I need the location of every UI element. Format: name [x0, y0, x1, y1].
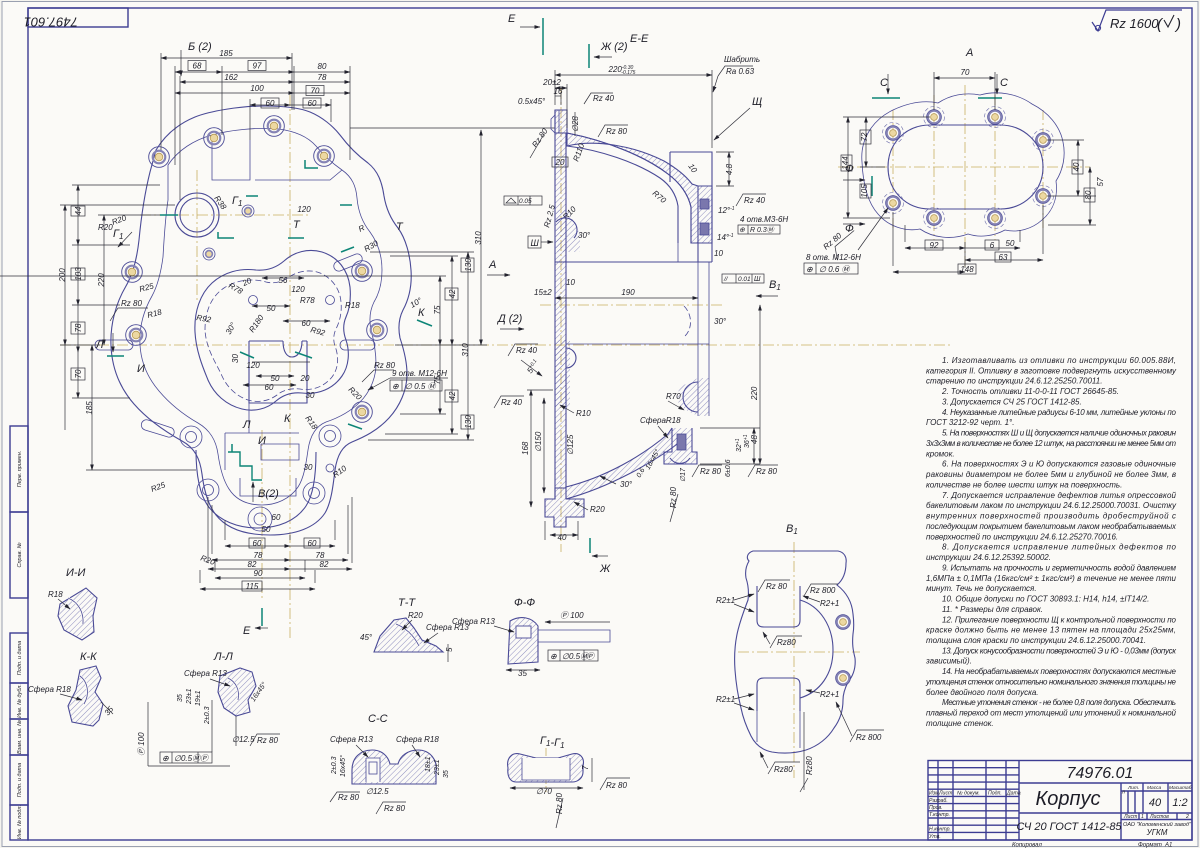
svg-text:раковины диаметром не более 5м: раковины диаметром не более 5мм и глубин…	[925, 470, 1176, 479]
right wall boss R70	[683, 382, 698, 412]
svg-text:Rz80: Rz80	[777, 638, 796, 647]
svg-text:82: 82	[320, 560, 329, 569]
svg-text:плавный переход от мест утолще: плавный переход от мест утолщений или ут…	[926, 709, 1177, 718]
svg-text:4. Неуказанные литейные радиус: 4. Неуказанные литейные радиусы 6-10 мм,…	[942, 408, 1177, 417]
centerline horizontal main	[60, 344, 950, 346]
svg-text:Листов: Листов	[1149, 814, 1169, 820]
sump U-notch	[283, 341, 302, 357]
svg-text:68: 68	[193, 62, 202, 71]
svg-text:поверхностей по инструкции 24.: поверхностей по инструкции 24.6.12.25270…	[926, 532, 1118, 541]
svg-text:105: 105	[860, 184, 869, 198]
svg-text:82: 82	[248, 560, 257, 569]
svg-text:Шабрить: Шабрить	[724, 55, 760, 64]
svg-text:Rz80: Rz80	[805, 756, 814, 775]
B1 arrow marker right of E-E	[756, 279, 781, 296]
svg-text:35: 35	[443, 770, 450, 778]
svg-text:78: 78	[316, 551, 325, 560]
sump step lines	[225, 403, 299, 470]
svg-text:310: 310	[461, 343, 470, 357]
right wall below flange	[698, 262, 709, 416]
svg-text:1,6МПа ± 0,1МПа (16кгс/см² ± 1: 1,6МПа ± 0,1МПа (16кгс/см² ± 1кгс/см²) в…	[926, 574, 1177, 583]
svg-text:Л-Л: Л-Л	[213, 651, 233, 663]
svg-text:R18: R18	[48, 590, 63, 599]
svg-text:толщине стенок.: толщине стенок.	[926, 719, 994, 728]
leader 8 отв М12-6Н	[804, 208, 888, 274]
svg-text:R18: R18	[345, 301, 360, 310]
bore big circle outer	[175, 193, 219, 237]
svg-text:8. Допускается исправление: 8. Допускается исправление литейных дефе…	[942, 543, 1177, 552]
left margin column boxes	[10, 426, 28, 840]
svg-text:Ⓟ 100: Ⓟ 100	[137, 732, 146, 756]
svg-text:∅28: ∅28	[571, 116, 580, 132]
svg-text:R78: R78	[300, 296, 315, 305]
bottom dim chains	[200, 497, 352, 589]
svg-text:30: 30	[306, 391, 315, 400]
30 deg dashed arc	[684, 306, 691, 336]
svg-text:УГКМ: УГКМ	[1146, 828, 1168, 837]
labels	[716, 580, 884, 792]
inner flange contour	[140, 128, 382, 505]
svg-text:60: 60	[308, 539, 317, 548]
centerline vertical bore	[196, 170, 198, 300]
inner horizontal line	[566, 343, 709, 345]
svg-text:15±2: 15±2	[534, 288, 552, 297]
svg-text:4 отв.М3-6Н: 4 отв.М3-6Н	[740, 215, 788, 224]
svg-text:220: 220	[750, 386, 759, 401]
svg-text:Е: Е	[508, 13, 516, 25]
svg-text:120: 120	[297, 205, 311, 214]
svg-text:Сфера R13: Сфера R13	[452, 617, 495, 626]
svg-text:42: 42	[448, 391, 457, 400]
svg-text:В(2): В(2)	[258, 488, 279, 500]
svg-text:Ш: Ш	[531, 238, 540, 248]
svg-text:Rz 80: Rz 80	[766, 582, 787, 591]
svg-text:70: 70	[74, 369, 83, 378]
left slot 2	[141, 420, 174, 437]
svg-text:Б (2): Б (2)	[188, 41, 212, 53]
svg-text:К: К	[418, 307, 425, 319]
svg-text:∅125: ∅125	[566, 434, 575, 455]
svg-text:70: 70	[961, 68, 970, 77]
svg-text:44: 44	[74, 206, 83, 215]
svg-text:7. Допускается исправление д: 7. Допускается исправление дефектов лить…	[942, 491, 1177, 500]
svg-text:Дата: Дата	[1006, 791, 1021, 797]
svg-text:⊕: ⊕	[392, 382, 399, 391]
svg-text:Сфера R18: Сфера R18	[28, 685, 71, 694]
R20 leader top-left	[98, 223, 132, 247]
svg-text:78: 78	[74, 323, 83, 332]
svg-text:3. Допускается СЧ 25 ГОСТ 1412: 3. Допускается СЧ 25 ГОСТ 1412-85.	[942, 398, 1082, 407]
svg-text:R20: R20	[408, 611, 423, 620]
svg-text:Rz 800: Rz 800	[856, 733, 882, 742]
svg-text:Т.контр.: Т.контр.	[929, 812, 950, 818]
svg-text:5: 5	[445, 647, 454, 652]
svg-text:40: 40	[558, 533, 567, 542]
notch to bottom lines	[757, 711, 800, 748]
right slot	[340, 340, 375, 350]
svg-text:185: 185	[85, 401, 94, 415]
svg-text:7497.601: 7497.601	[24, 15, 78, 30]
svg-text:120: 120	[291, 285, 305, 294]
svg-text:Rz 80: Rz 80	[374, 361, 395, 370]
outer contour	[111, 106, 411, 535]
svg-text:220: 220	[97, 273, 106, 288]
svg-text:200: 200	[58, 268, 67, 283]
section К-К	[28, 651, 116, 726]
svg-text:Rz 800: Rz 800	[810, 586, 836, 595]
svg-text:13. Допуск конусообразности по: 13. Допуск конусообразности поверхностей…	[942, 646, 1177, 655]
svg-text:7: 7	[581, 765, 590, 770]
svg-text:11. * Размеры для справок.: 11. * Размеры для справок.	[942, 605, 1043, 614]
lower notch	[757, 678, 800, 711]
svg-text:Rz 80: Rz 80	[384, 804, 405, 813]
svg-text:количестве не более шести штук: количестве не более шести штук на поверх…	[926, 480, 1122, 489]
joint face line	[555, 261, 712, 263]
right top flange block	[670, 152, 712, 262]
svg-text:60: 60	[265, 383, 274, 392]
inner bowl right	[800, 600, 833, 698]
svg-text:6: 6	[990, 241, 995, 250]
svg-text:40: 40	[1149, 797, 1162, 809]
svg-text:∅17: ∅17	[680, 467, 687, 482]
svg-text:К: К	[284, 413, 291, 425]
svg-text:R2+1: R2+1	[820, 690, 839, 699]
svg-text:Rz 80: Rz 80	[756, 467, 777, 476]
svg-text:Сфера R13: Сфера R13	[184, 669, 227, 678]
svg-text:Пров.: Пров.	[929, 805, 943, 811]
svg-text:Корпус: Корпус	[1035, 788, 1100, 810]
svg-text:63: 63	[999, 253, 1008, 262]
central cavity outline	[195, 250, 350, 410]
svg-text:Утв.: Утв.	[929, 834, 941, 840]
section Л-Л	[137, 651, 280, 766]
svg-text:0.05: 0.05	[519, 198, 532, 205]
svg-text:115: 115	[246, 582, 259, 591]
svg-text:И: И	[258, 435, 266, 447]
svg-text:Rz 80: Rz 80	[606, 781, 627, 790]
svg-text:60: 60	[302, 319, 311, 328]
svg-text:Ж (2): Ж (2)	[600, 41, 628, 53]
top window lines	[212, 135, 250, 180]
svg-text:И: И	[137, 363, 145, 375]
svg-text:148: 148	[960, 265, 974, 274]
svg-text:Лист: Лист	[938, 791, 953, 797]
title block	[928, 761, 1192, 848]
right flange curl hatched	[678, 243, 712, 262]
top-left designation box	[24, 8, 128, 30]
svg-text:Rz 40: Rz 40	[744, 196, 765, 205]
svg-text:4.8: 4.8	[725, 163, 734, 175]
section И-И	[48, 567, 97, 640]
svg-text:толщина слоя краски по инструк: толщина слоя краски по инструкции 24.6.1…	[926, 636, 1146, 645]
svg-text:6. На поверхностях Э и Ю допус: 6. На поверхностях Э и Ю допускаются газ…	[942, 460, 1177, 469]
svg-text:Rz 80: Rz 80	[700, 467, 721, 476]
svg-text:30°: 30°	[578, 231, 591, 240]
svg-text:⊕: ⊕	[162, 754, 169, 763]
svg-text:краске должно быть не менее 13: краске должно быть не менее 13 пятен на …	[926, 626, 1176, 635]
svg-text:R2±1: R2±1	[716, 596, 735, 605]
svg-text:Масса: Масса	[1147, 785, 1162, 791]
svg-text:R 0.3Ⓜ: R 0.3Ⓜ	[750, 226, 775, 234]
Rz 80 flag top-left of view	[110, 299, 148, 321]
left wall boss	[566, 348, 576, 368]
inner dims main view	[224, 205, 315, 534]
svg-text:0.5х45°: 0.5х45°	[518, 97, 546, 106]
left slot	[95, 340, 133, 350]
svg-text:Rz 80: Rz 80	[606, 127, 627, 136]
svg-text:Разраб.: Разраб.	[929, 798, 948, 804]
section Ф-Ф	[452, 597, 610, 678]
top flange of left wall	[555, 110, 567, 133]
svg-text:⊕: ⊕	[550, 652, 557, 661]
svg-text:утолщения стенок относительно: утолщения стенок относительно номинально…	[925, 678, 1177, 687]
svg-text:16х45°: 16х45°	[339, 755, 347, 777]
top horizontal dimension chains (185/68/97/162/100/70/60)	[161, 53, 350, 200]
inner notch top	[757, 586, 800, 627]
svg-text:23±1: 23±1	[186, 688, 193, 705]
svg-text:45°: 45°	[360, 633, 373, 642]
Л marker left	[107, 333, 124, 356]
svg-text:R20: R20	[98, 223, 113, 232]
svg-text:Rz 40: Rz 40	[501, 398, 522, 407]
cavity inner dashed	[205, 271, 341, 401]
svg-text:Перв. примен.: Перв. примен.	[17, 451, 23, 488]
svg-text:последующим покрытием бакелито: последующим покрытием бакелитовым лаком …	[926, 522, 1177, 531]
section letters on main view	[95, 195, 425, 447]
svg-text:СфераR18: СфераR18	[640, 416, 681, 425]
svg-text:Д (2): Д (2)	[496, 313, 523, 325]
centerline horizontal bore	[140, 214, 310, 216]
svg-text:Щ: Щ	[752, 96, 762, 108]
section Г1-Г1	[508, 735, 630, 828]
svg-text:60: 60	[266, 99, 275, 108]
svg-text:50: 50	[267, 304, 276, 313]
svg-text:Rz 80: Rz 80	[669, 487, 678, 508]
Б(2) section marker top	[181, 41, 212, 76]
svg-text:Rz80: Rz80	[774, 765, 793, 774]
svg-text:60: 60	[272, 513, 281, 522]
svg-text:130: 130	[464, 415, 473, 429]
section С-С	[330, 713, 450, 814]
svg-text:9 отв. М12-6Н: 9 отв. М12-6Н	[392, 369, 447, 378]
svg-text:Ⓟ 100: Ⓟ 100	[560, 611, 584, 620]
svg-text:10. Общие допуски по ГОСТ 3089: 10. Общие допуски по ГОСТ 30893.1: Н14, …	[942, 595, 1149, 604]
svg-text:168: 168	[521, 441, 530, 455]
bolt inserts right wall	[700, 199, 709, 209]
svg-text:Формат: Формат	[1138, 843, 1162, 848]
svg-text:Rz 80: Rz 80	[257, 736, 278, 745]
C section marks	[872, 74, 1008, 98]
svg-text:80: 80	[318, 62, 327, 71]
svg-text:R10: R10	[576, 409, 591, 418]
svg-text:Ж: Ж	[599, 563, 611, 575]
E-E dimensions bottom	[494, 305, 778, 542]
svg-text:Е-Е: Е-Е	[630, 33, 649, 45]
svg-text:1: 1	[1141, 814, 1144, 820]
svg-text:Подп. и дата: Подп. и дата	[17, 641, 23, 675]
svg-text:Rz 80: Rz 80	[121, 299, 142, 308]
svg-text:А1: А1	[1164, 843, 1172, 848]
svg-text:23±1: 23±1	[434, 759, 441, 776]
A view dims	[843, 72, 1096, 272]
svg-text:инструкции 24.6.12.25392.50002: инструкции 24.6.12.25392.50002.	[926, 553, 1051, 562]
svg-text:Масштаб: Масштаб	[1169, 785, 1192, 791]
svg-text:1. Изготавливать из отли: 1. Изготавливать из отливки по инструкци…	[942, 356, 1176, 365]
svg-text:R70: R70	[666, 392, 681, 401]
svg-text:162: 162	[224, 73, 238, 82]
inner stadium	[888, 125, 1043, 209]
left wall hatched	[555, 133, 566, 488]
svg-text:бакелитовым лаком по инструкци: бакелитовым лаком по инструкции 24.6.12.…	[926, 501, 1177, 510]
svg-text:5. На поверхностях Ш и Щ допус: 5. На поверхностях Ш и Щ допускается нал…	[942, 429, 1177, 438]
svg-text:Копировал: Копировал	[1012, 843, 1042, 848]
svg-text:Rz 80: Rz 80	[338, 793, 359, 802]
svg-text:20±2: 20±2	[542, 78, 561, 87]
svg-text:∅ 0.5 Ⓜ: ∅ 0.5 Ⓜ	[405, 382, 438, 391]
svg-text:Справ. №: Справ. №	[17, 542, 23, 567]
lower sump window	[261, 444, 299, 460]
lower sump outline	[249, 341, 307, 403]
svg-text:3х3х3мм в количестве не более: 3х3х3мм в количестве не более 12 штук, н…	[926, 439, 1176, 448]
svg-text:1:2: 1:2	[1172, 797, 1187, 809]
svg-text:зависимый).: зависимый).	[925, 657, 972, 666]
svg-text:категория II. Отливку в загото: категория II. Отливку в заготовке подвер…	[926, 366, 1177, 375]
svg-text:130: 130	[464, 258, 473, 272]
svg-text:Взам. инв. №: Взам. инв. №	[17, 720, 23, 754]
svg-text:С-С: С-С	[368, 713, 388, 725]
svg-text:Сфера R13: Сфера R13	[330, 735, 373, 744]
svg-text:72: 72	[860, 132, 869, 141]
svg-text:Лит.: Лит.	[1127, 785, 1139, 791]
Ф marks	[843, 163, 872, 235]
E section marker top	[508, 13, 543, 55]
svg-text:2±0.3: 2±0.3	[331, 756, 338, 775]
svg-text:30°: 30°	[714, 317, 727, 326]
svg-text:С: С	[1000, 77, 1008, 89]
svg-text:14. На необрабатываемых поверх: 14. На необрабатываемых поверхностях доп…	[942, 667, 1177, 676]
E-E centerlines	[540, 304, 722, 306]
svg-text:R2±1: R2±1	[716, 695, 735, 704]
svg-text:∅12.5: ∅12.5	[366, 787, 389, 796]
svg-text:R2+1: R2+1	[820, 599, 839, 608]
svg-text:∅150: ∅150	[534, 431, 543, 452]
svg-text:Ш: Ш	[754, 276, 761, 283]
Д(2) marker	[496, 313, 524, 329]
svg-text:92: 92	[930, 241, 939, 250]
svg-text:№ докум.: № докум.	[957, 791, 980, 797]
svg-text:50: 50	[262, 525, 271, 534]
svg-text:Ф-Ф: Ф-Ф	[514, 597, 535, 609]
svg-text:): )	[1174, 16, 1181, 33]
centerline vertical bottom	[261, 430, 263, 600]
svg-text:30°: 30°	[620, 480, 633, 489]
svg-text:8 отв. М12-6Н: 8 отв. М12-6Н	[806, 253, 861, 262]
svg-text:более двойного поля допуска.: более двойного поля допуска.	[926, 688, 1039, 697]
svg-text:30: 30	[231, 354, 240, 363]
svg-text:190: 190	[621, 288, 635, 297]
leader radius labels main view	[111, 194, 381, 567]
svg-text:6±0.6: 6±0.6	[725, 459, 732, 477]
svg-text:Н.контр.: Н.контр.	[929, 827, 951, 833]
teal section marks on main view	[160, 160, 432, 480]
bolt holes of main view	[122, 116, 388, 531]
svg-text:Местные утонения стенок - не б: Местные утонения стенок - не более 0,8 п…	[942, 698, 1176, 707]
svg-text:310: 310	[474, 231, 483, 245]
10deg note right	[409, 295, 425, 309]
svg-text:50: 50	[271, 374, 280, 383]
svg-text:кромок.: кромок.	[926, 449, 955, 458]
svg-text:Лист: Лист	[1123, 814, 1138, 820]
svg-text:56: 56	[279, 276, 288, 285]
svg-text:2±0.3: 2±0.3	[204, 706, 211, 725]
svg-text:R20: R20	[590, 505, 605, 514]
svg-text:старению по инструкции 24.6.12: старению по инструкции 24.6.12.25250.700…	[926, 377, 1102, 386]
svg-text:40: 40	[1072, 162, 1081, 171]
svg-text:∅0.5Ⓜ: ∅0.5Ⓜ	[174, 754, 202, 763]
centerline vertical main	[289, 95, 291, 640]
svg-text:Rz 80: Rz 80	[555, 793, 564, 814]
svg-text:Инв. № дубл.: Инв. № дубл.	[17, 684, 23, 718]
svg-text:Rz 40: Rz 40	[516, 346, 537, 355]
svg-text:И-И: И-И	[66, 567, 86, 579]
svg-text:Т-Т: Т-Т	[398, 597, 416, 609]
bolt holes	[883, 107, 1054, 229]
svg-text:185: 185	[219, 49, 233, 58]
svg-text:50: 50	[1006, 239, 1015, 248]
svg-text:103: 103	[74, 267, 83, 281]
svg-text:20: 20	[300, 374, 310, 383]
svg-text:78: 78	[254, 551, 263, 560]
svg-text:Л: Л	[242, 419, 251, 431]
svg-text:С: С	[880, 77, 888, 89]
svg-text:А: А	[965, 47, 973, 59]
svg-text:2. Точность отливки 11-0-0-11: 2. Точность отливки 11-0-0-11 ГОСТ 26645…	[941, 387, 1119, 396]
svg-text:10: 10	[714, 249, 723, 258]
svg-text:Ra 0.63: Ra 0.63	[726, 67, 755, 76]
small holes	[836, 615, 851, 630]
svg-text:л: л	[1121, 790, 1125, 796]
svg-text:18±1: 18±1	[425, 756, 432, 772]
svg-text:78: 78	[318, 73, 327, 82]
svg-text:35: 35	[177, 694, 184, 702]
svg-text:Подп.: Подп.	[988, 791, 1002, 797]
svg-text:60: 60	[308, 99, 317, 108]
svg-text:внутренних поверхностей произв: внутренних поверхностей производить дроб…	[926, 512, 1176, 521]
sphere stem right	[664, 428, 697, 464]
bottom U inner	[196, 450, 316, 528]
190 dim	[555, 297, 698, 299]
svg-text:ОАО "Коломенский завод": ОАО "Коломенский завод"	[1123, 821, 1192, 828]
svg-text:30: 30	[304, 463, 313, 472]
svg-text:100: 100	[250, 84, 264, 93]
bore big circle inner	[180, 198, 214, 232]
right dim chains (between view and E-E)	[0, 128, 555, 440]
svg-text:60: 60	[253, 539, 262, 548]
svg-text:Сфера R18: Сфера R18	[396, 735, 439, 744]
svg-text:∅ 0.6 Ⓜ: ∅ 0.6 Ⓜ	[819, 265, 852, 274]
svg-text:16: 16	[554, 87, 563, 96]
svg-text:144: 144	[841, 156, 850, 170]
E section marker bottom	[243, 608, 268, 637]
svg-text:Подп. и дата: Подп. и дата	[17, 763, 23, 797]
svg-text:90: 90	[254, 569, 263, 578]
technical requirements text	[925, 356, 1177, 728]
svg-text:К-К: К-К	[80, 651, 97, 663]
section Т-Т	[360, 597, 469, 662]
svg-text:Rz 1600: Rz 1600	[1110, 16, 1159, 31]
leader 9 отв М12-6Н	[362, 361, 448, 391]
svg-text:СЧ 20 ГОСТ 1412-85: СЧ 20 ГОСТ 1412-85	[1016, 821, 1122, 833]
